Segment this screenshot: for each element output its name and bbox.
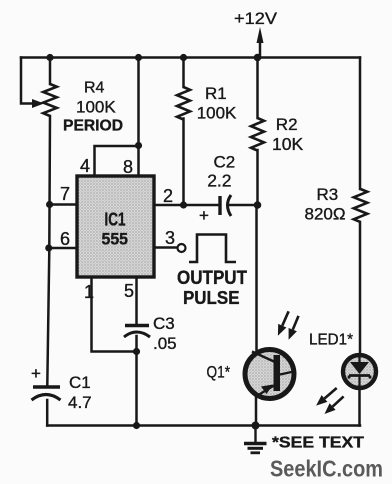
svg-text:8: 8 [123, 157, 133, 177]
IC U1: IC1 555 timer body [77, 176, 154, 277]
node rail-R1 [180, 54, 187, 61]
wire C3 to junction to rail [135, 336, 138, 426]
svg-text:6: 6 [60, 229, 70, 249]
svg-text:+12V: +12V [234, 9, 278, 28]
node C3-pin1 [133, 348, 140, 355]
wire left bottom to rail [46, 400, 49, 426]
svg-text:LED1*: LED1* [309, 332, 353, 349]
svg-text:10K: 10K [272, 134, 303, 154]
svg-text:R1: R1 [205, 84, 227, 103]
svg-text:C2: C2 [214, 153, 236, 172]
svg-text:5: 5 [124, 281, 134, 301]
node rail-pin8 [135, 54, 142, 61]
svg-text:PULSE: PULSE [183, 288, 240, 308]
wire +12V stub [259, 42, 262, 58]
potentiometer R4 wiper arrowhead [32, 99, 44, 108]
svg-text:3: 3 [165, 228, 175, 248]
wire pin4 [95, 146, 139, 176]
output pulse waveform [189, 235, 236, 263]
svg-text:OUTPUT: OUTPUT [177, 268, 247, 289]
transistor Q1 bar [274, 355, 281, 391]
wire pin6 [50, 247, 78, 250]
node C2-R2 [254, 201, 262, 209]
svg-text:C1: C1 [69, 373, 91, 392]
node pin3 output open circle [178, 244, 186, 252]
light arrow out of LED (lower) [333, 396, 344, 406]
svg-text:820Ω: 820Ω [305, 205, 346, 224]
node rail-R4 [46, 54, 53, 61]
wire LED to bottom rail [358, 388, 361, 426]
resistor R2 body [251, 118, 264, 151]
node pin4-pin8 [135, 142, 142, 149]
power +12V arrowhead [257, 27, 264, 43]
wire R2 vertical [256, 58, 259, 206]
light arrow into Q1 (left) [282, 311, 288, 325]
svg-text:C3: C3 [153, 314, 175, 333]
capacitor C3 plates [125, 324, 149, 327]
svg-text:+: + [31, 364, 41, 383]
light arrow into Q1 (right) [293, 316, 299, 330]
LED LED1 triangle [350, 362, 369, 374]
node pin2-R1 [180, 201, 187, 208]
wire Q1 emitter to rail [255, 398, 258, 426]
svg-text:7: 7 [60, 184, 70, 204]
svg-text:100K: 100K [197, 104, 237, 123]
LED LED1 cathode bar [349, 376, 370, 379]
wire pin5 to C3 [135, 278, 138, 325]
transistor Q1 base line [280, 371, 296, 375]
svg-text:IC1: IC1 [105, 210, 126, 230]
capacitor C2 plates [218, 196, 221, 215]
wire pin7 [50, 203, 78, 206]
transistor Q1 body [245, 350, 294, 399]
node rail-12V-R2 [254, 54, 262, 62]
svg-text:4: 4 [80, 156, 90, 176]
svg-text:*SEE TEXT: *SEE TEXT [272, 435, 364, 452]
transistor Q1 collector line [252, 352, 275, 363]
wire top rail [21, 56, 360, 59]
svg-text:PERIOD: PERIOD [63, 118, 123, 135]
svg-text:SeekIC.com: SeekIC.com [270, 456, 383, 482]
svg-text:R2: R2 [276, 115, 298, 134]
wire R2 to Q1 collector [255, 205, 258, 350]
transistor Q1 emitter arrowhead [261, 385, 273, 395]
wire pin2 row [154, 204, 258, 207]
node C3-bottom rail [133, 422, 140, 429]
LED LED1 body [343, 355, 376, 388]
svg-text:2.2: 2.2 [207, 171, 231, 191]
svg-text:+: + [199, 206, 209, 225]
LED LED1 inner leads [358, 355, 360, 387]
wire pin8 / rail drop [137, 58, 140, 177]
resistor R1 body [177, 87, 190, 120]
node pin6-left [45, 244, 52, 251]
svg-text:555: 555 [102, 230, 129, 249]
capacitor C1 plates [33, 385, 60, 389]
wire pin1 [92, 278, 137, 352]
svg-text:1: 1 [84, 282, 94, 302]
svg-text:.05: .05 [153, 334, 177, 353]
node pin7-left [46, 201, 53, 208]
svg-text:Q1*: Q1* [207, 363, 231, 382]
wire R4 wiper loop [21, 58, 34, 104]
transistor Q1 emitter line [255, 386, 274, 398]
wire pin3 [154, 246, 178, 249]
svg-text:2: 2 [163, 186, 173, 206]
wire R1 vertical [182, 58, 185, 206]
node ground-rail [252, 422, 260, 430]
resistor R4 body (potentiometer) [43, 84, 57, 116]
wire bottom rail [47, 424, 360, 427]
wire left vertical (R4 to C1) [47, 58, 50, 386]
ground symbol [244, 426, 267, 453]
light arrow out of LED (upper) [325, 388, 337, 399]
svg-text:R3: R3 [317, 185, 339, 204]
svg-text:4.7: 4.7 [68, 393, 92, 412]
wire R3 vertical [359, 58, 362, 355]
svg-text:100K: 100K [76, 97, 116, 116]
resistor R3 body [354, 189, 368, 222]
svg-text:R4: R4 [84, 79, 105, 96]
